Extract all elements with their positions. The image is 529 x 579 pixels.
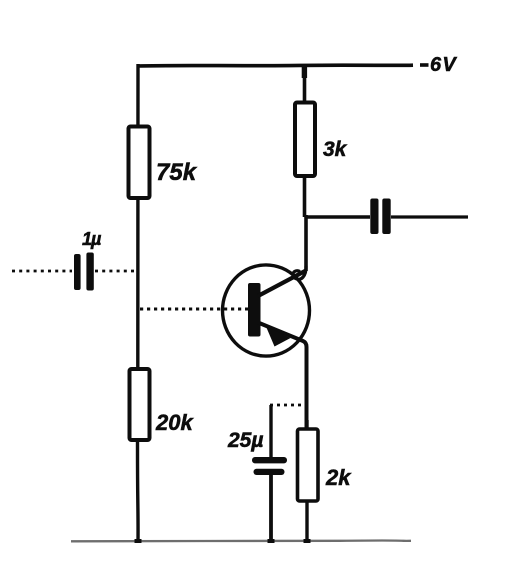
svg-text:25µ: 25µ [227, 429, 263, 452]
svg-text:2k: 2k [325, 465, 352, 490]
svg-text:1µ: 1µ [82, 229, 102, 249]
svg-text:3k: 3k [323, 138, 348, 161]
svg-text:20k: 20k [155, 410, 194, 435]
svg-text:75k: 75k [156, 159, 198, 186]
svg-text:6V: 6V [430, 54, 457, 76]
